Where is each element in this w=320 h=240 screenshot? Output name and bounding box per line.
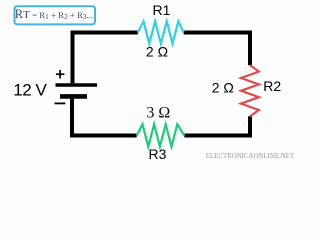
wire W2 (battery − plate → bottom-left corner → R3 left end) <box>72 99 137 136</box>
battery V1 top plate (+) <box>56 83 98 87</box>
wire W3 (R1 right end → top-right corner → R2 top end) <box>184 33 250 66</box>
svg-text:2 Ω: 2 Ω <box>146 44 168 60</box>
svg-text:R1: R1 <box>153 2 171 18</box>
svg-text:12 V: 12 V <box>13 81 47 100</box>
battery − sign <box>55 102 66 104</box>
svg-text:RT = R1 + R2 + R3...: RT = R1 + R2 + R3... <box>15 7 93 21</box>
resistor R1 zigzag (cyan) <box>138 21 184 43</box>
svg-text:R3: R3 <box>149 146 167 162</box>
wire W1 (R1 left end → top-left corner → battery + plate) <box>73 33 138 84</box>
svg-text:ELECTRONICAONLINE.NET: ELECTRONICAONLINE.NET <box>206 153 295 160</box>
svg-text:3 Ω: 3 Ω <box>146 104 170 121</box>
wire W4 (R2 bottom end → bottom-right corner → R3 right end) <box>184 116 250 135</box>
svg-text:2 Ω: 2 Ω <box>212 79 234 95</box>
battery + sign <box>56 70 65 79</box>
resistor R3 zigzag (green) <box>137 124 185 146</box>
svg-text:R2: R2 <box>263 78 281 94</box>
battery V1 bottom plate (−) <box>60 94 87 99</box>
formula box <box>15 6 96 24</box>
resistor R2 zigzag (red) <box>241 65 259 116</box>
